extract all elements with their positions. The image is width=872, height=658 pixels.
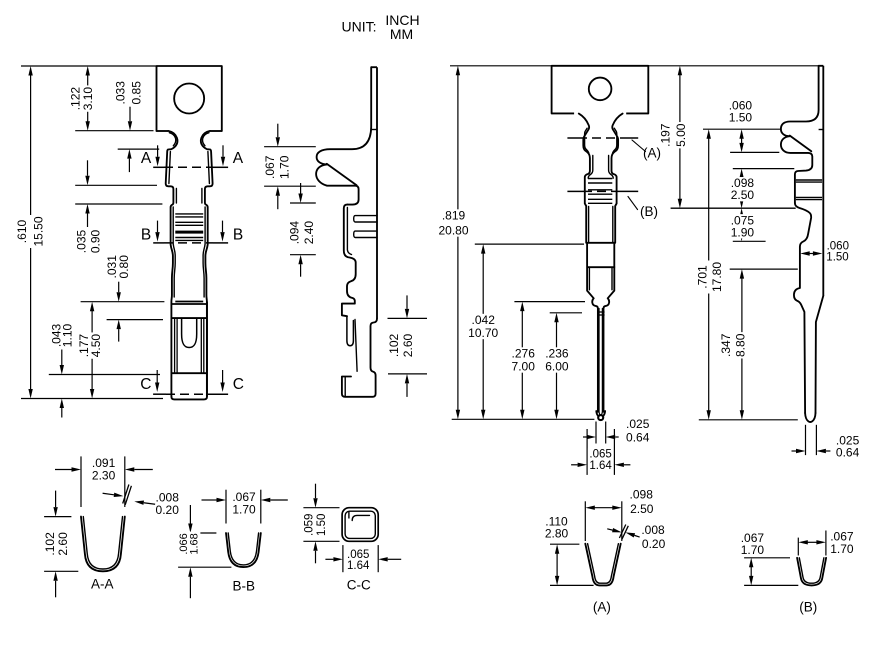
svg-text:2.60: 2.60 xyxy=(56,532,70,556)
svg-text:(A): (A) xyxy=(593,600,611,615)
svg-text:(B): (B) xyxy=(799,600,817,615)
svg-text:.819: .819 xyxy=(442,209,466,223)
svg-text:1.50: 1.50 xyxy=(316,514,328,536)
svg-text:(A): (A) xyxy=(643,146,661,161)
svg-text:3.10: 3.10 xyxy=(81,87,95,111)
svg-text:B-B: B-B xyxy=(232,578,255,593)
svg-text:(B): (B) xyxy=(640,204,658,219)
svg-text:C: C xyxy=(233,376,244,393)
svg-text:.067: .067 xyxy=(263,155,277,179)
svg-text:2.40: 2.40 xyxy=(302,221,316,245)
svg-text:A-A: A-A xyxy=(91,576,114,591)
svg-text:.347: .347 xyxy=(719,333,733,357)
svg-text:.102: .102 xyxy=(387,333,401,357)
svg-text:1.70: 1.70 xyxy=(278,155,292,179)
svg-text:.059: .059 xyxy=(304,514,316,536)
svg-text:.008: .008 xyxy=(641,523,665,537)
svg-text:1.70: 1.70 xyxy=(232,503,256,517)
svg-text:0.64: 0.64 xyxy=(626,431,650,445)
svg-text:1.50: 1.50 xyxy=(826,251,848,263)
svg-text:A: A xyxy=(233,150,244,167)
svg-text:.276: .276 xyxy=(512,347,536,361)
svg-text:.610: .610 xyxy=(15,219,29,243)
svg-text:15.50: 15.50 xyxy=(31,216,45,246)
svg-text:.701: .701 xyxy=(695,265,709,289)
svg-text:.197: .197 xyxy=(658,123,672,147)
svg-text:B: B xyxy=(233,227,243,244)
svg-text:8.80: 8.80 xyxy=(733,333,747,357)
svg-text:4.50: 4.50 xyxy=(89,334,103,358)
svg-text:C-C: C-C xyxy=(347,578,371,593)
svg-text:0.20: 0.20 xyxy=(156,503,180,517)
svg-text:1.64: 1.64 xyxy=(347,560,370,572)
svg-text:1.70: 1.70 xyxy=(830,542,854,556)
svg-text:2.60: 2.60 xyxy=(401,333,415,357)
svg-text:.065: .065 xyxy=(589,448,611,460)
svg-text:C: C xyxy=(140,376,151,393)
svg-text:7.00: 7.00 xyxy=(512,360,536,374)
svg-text:2.30: 2.30 xyxy=(92,468,116,482)
svg-text:MM: MM xyxy=(390,26,413,42)
svg-text:1.70: 1.70 xyxy=(741,543,765,557)
svg-text:.035: .035 xyxy=(74,229,88,253)
svg-text:10.70: 10.70 xyxy=(468,326,498,340)
svg-text:1.68: 1.68 xyxy=(189,533,201,554)
svg-text:.098: .098 xyxy=(630,488,654,502)
svg-text:.042: .042 xyxy=(472,313,496,327)
svg-text:1.50: 1.50 xyxy=(729,110,753,124)
svg-text:.094: .094 xyxy=(288,221,302,245)
svg-text:0.85: 0.85 xyxy=(130,81,144,105)
svg-text:6.00: 6.00 xyxy=(545,360,569,374)
svg-text:2.80: 2.80 xyxy=(545,527,569,541)
svg-text:B: B xyxy=(141,227,151,244)
svg-text:.102: .102 xyxy=(43,532,57,556)
svg-text:0.90: 0.90 xyxy=(89,229,103,253)
svg-text:20.80: 20.80 xyxy=(438,224,468,238)
svg-text:.033: .033 xyxy=(114,81,128,105)
svg-text:1.10: 1.10 xyxy=(60,323,74,347)
svg-text:A: A xyxy=(141,150,152,167)
svg-text:.025: .025 xyxy=(626,417,650,431)
svg-text:5.00: 5.00 xyxy=(674,123,688,147)
svg-text:2.50: 2.50 xyxy=(731,188,755,202)
svg-text:1.64: 1.64 xyxy=(589,460,612,472)
svg-text:17.80: 17.80 xyxy=(710,262,724,292)
svg-text:0.80: 0.80 xyxy=(117,255,131,279)
svg-text:0.64: 0.64 xyxy=(836,446,860,460)
svg-text:UNIT:: UNIT: xyxy=(342,19,377,35)
svg-text:1.90: 1.90 xyxy=(731,225,755,239)
svg-text:.236: .236 xyxy=(545,347,569,361)
svg-text:2.50: 2.50 xyxy=(630,502,654,516)
svg-text:0.20: 0.20 xyxy=(642,537,666,551)
